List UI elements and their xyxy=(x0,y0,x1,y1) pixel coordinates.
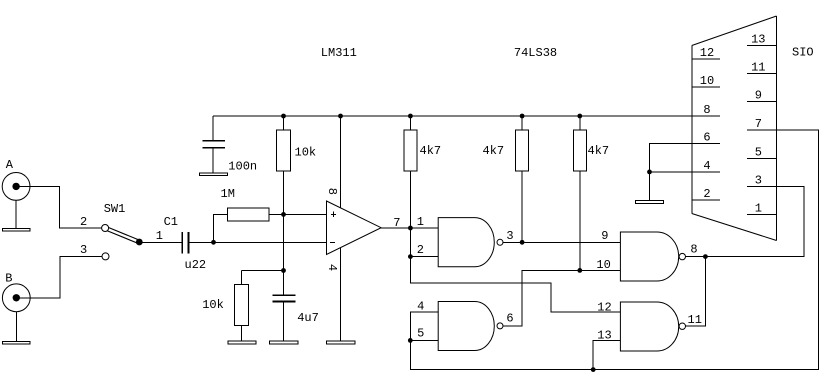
svg-text:LM311: LM311 xyxy=(321,46,357,60)
svg-text:4: 4 xyxy=(703,159,710,173)
svg-text:8: 8 xyxy=(325,188,339,195)
svg-text:2: 2 xyxy=(80,215,87,229)
svg-text:6: 6 xyxy=(506,312,513,326)
svg-text:10k: 10k xyxy=(295,146,317,160)
svg-text:74LS38: 74LS38 xyxy=(514,46,557,60)
svg-text:8: 8 xyxy=(703,103,710,117)
svg-text:11: 11 xyxy=(751,61,765,75)
svg-text:7: 7 xyxy=(393,216,400,230)
svg-text:5: 5 xyxy=(755,145,762,159)
svg-text:2: 2 xyxy=(417,243,424,257)
svg-text:C1: C1 xyxy=(164,215,178,229)
svg-text:11: 11 xyxy=(688,313,702,327)
svg-text:10: 10 xyxy=(596,258,610,272)
svg-text:9: 9 xyxy=(755,89,762,103)
svg-text:1M: 1M xyxy=(221,187,235,201)
svg-text:100n: 100n xyxy=(228,159,257,173)
svg-text:10: 10 xyxy=(700,74,714,88)
svg-text:8: 8 xyxy=(690,243,697,257)
svg-text:3: 3 xyxy=(80,243,87,257)
svg-text:12: 12 xyxy=(700,46,714,60)
svg-text:4u7: 4u7 xyxy=(297,311,319,325)
svg-text:10k: 10k xyxy=(202,298,224,312)
svg-text:3: 3 xyxy=(506,229,513,243)
svg-text:4: 4 xyxy=(325,264,339,271)
svg-text:3: 3 xyxy=(755,173,762,187)
svg-text:4k7: 4k7 xyxy=(483,144,505,158)
svg-text:u22: u22 xyxy=(185,258,207,272)
svg-text:7: 7 xyxy=(755,117,762,131)
svg-text:13: 13 xyxy=(597,329,611,343)
svg-text:9: 9 xyxy=(601,229,608,243)
svg-text:1: 1 xyxy=(156,229,163,243)
svg-text:2: 2 xyxy=(703,187,710,201)
svg-text:4k7: 4k7 xyxy=(420,144,442,158)
svg-text:12: 12 xyxy=(597,301,611,315)
svg-text:4k7: 4k7 xyxy=(588,144,610,158)
svg-text:SIO: SIO xyxy=(792,46,814,60)
svg-text:B: B xyxy=(5,271,12,285)
svg-text:1: 1 xyxy=(417,215,424,229)
svg-text:1: 1 xyxy=(755,201,762,215)
svg-text:13: 13 xyxy=(751,32,765,46)
svg-text:A: A xyxy=(6,158,14,172)
svg-text:5: 5 xyxy=(417,327,424,341)
svg-text:SW1: SW1 xyxy=(104,202,126,216)
svg-text:6: 6 xyxy=(703,131,710,145)
svg-text:4: 4 xyxy=(417,299,424,313)
